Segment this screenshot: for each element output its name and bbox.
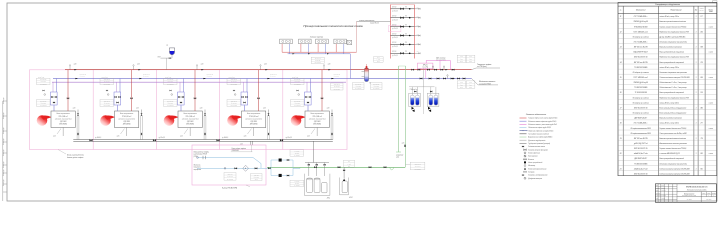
legend row 7: [520, 136, 527, 138]
gas collector label stack: [311, 57, 324, 63]
svg-text:ру 1,6МПа: ру 1,6МПа: [372, 88, 379, 90]
svg-text:Козлов: Козлов: [661, 198, 665, 200]
burner gas risers B1: [281, 44, 283, 52]
svg-text:Инв.подл: Инв.подл: [3, 169, 5, 176]
svg-text:ПТБ1,6М-02.00.000: ПТБ1,6М-02.00.000: [634, 26, 648, 28]
svg-text:технологическая схема: технологическая схема: [682, 195, 696, 197]
burner gas risers B2: [300, 44, 302, 52]
svg-text:16: 16: [620, 92, 622, 94]
burner block B2: [299, 39, 312, 44]
metering valves: [235, 168, 237, 170]
svg-text:ЗКЛ: ЗКЛ: [460, 56, 463, 58]
table row 25: [618, 139, 717, 141]
svg-text:Вентиль: Вентиль: [528, 159, 534, 161]
legend row 12: [524, 152, 526, 154]
outlet pipe U4: [267, 116, 269, 140]
svg-text:277: 277: [699, 123, 702, 125]
svg-text:ЗКЛ2 50-16: ЗКЛ2 50-16: [270, 74, 277, 76]
table row 10: [618, 63, 717, 65]
title block left grid: [657, 184, 659, 203]
svg-text:210: 210: [699, 62, 702, 64]
tank E-1 drain valves: [412, 107, 415, 110]
svg-text:729: 729: [700, 138, 703, 140]
legend row 6: [520, 133, 527, 135]
svg-text:103: 103: [700, 92, 702, 94]
collector tee to metering unit: [250, 141, 252, 145]
separator side stubs: [362, 71, 365, 73]
svg-text:699: 699: [700, 77, 702, 79]
table row 30: [618, 165, 717, 167]
svg-text:Т.контр.: Т.контр.: [656, 193, 661, 195]
svg-text:Обозначение: Обозначение: [636, 9, 646, 11]
legend row 9: [520, 142, 527, 144]
svg-text:Инв.подл: Инв.подл: [3, 138, 5, 145]
table row 4: [618, 33, 717, 35]
svg-text:ТПР-50: ТПР-50: [254, 174, 259, 176]
legend row 10: [522, 146, 524, 147]
table row 21: [618, 119, 717, 121]
green drain line vertical 2: [405, 66, 407, 167]
vent stub U1: [69, 66, 71, 70]
table row 17: [618, 99, 717, 101]
legend row 1: [520, 117, 527, 119]
outlet pipe U5: [330, 116, 332, 140]
svg-text:Инв.подл: Инв.подл: [3, 161, 5, 168]
flare manifold pink box: [388, 26, 401, 32]
red riser U3: [194, 70, 196, 111]
title block frame: [655, 184, 716, 203]
table row 22: [618, 124, 717, 126]
flare manifold frame: [390, 5, 392, 59]
svg-text:ДВУ 65307-33-017: ДВУ 65307-33-017: [633, 158, 647, 160]
flare branch 1: [414, 8, 418, 10]
svg-text:на приём УПСВ: на приём УПСВ: [479, 84, 492, 86]
collector valve V4: [280, 139, 283, 141]
svg-text:Манометр: Манометр: [528, 165, 535, 167]
svg-text:ПТБ-1,6М №2: ПТБ-1,6М №2: [122, 116, 131, 118]
burner block B1: [280, 39, 293, 44]
svg-text:ур23-6,3-Д-УХЛ1 сб: ур23-6,3-Д-УХЛ1 сб: [633, 143, 648, 145]
svg-text:РУ 1,6МПа: РУ 1,6МПа: [167, 105, 174, 107]
table row 15: [618, 88, 717, 90]
svg-text:38-110: 38-110: [295, 183, 299, 185]
svg-text:ЗКЛ2 50-16 ХЛ1 СБ: ЗКЛ2 50-16 ХЛ1 СБ: [634, 57, 648, 59]
svg-text:-ЕП-2: -ЕП-2: [349, 197, 353, 199]
svg-text:Газовые горелки: Газовые горелки: [310, 36, 323, 38]
table row 32: [618, 175, 717, 177]
funnel drain piping: [171, 55, 173, 58]
flare branch 6: [414, 52, 418, 54]
drain tank box E-2: [427, 93, 439, 106]
table row 2: [618, 22, 717, 24]
svg-text:ПТБ-1,6М №3: ПТБ-1,6М №3: [186, 116, 195, 118]
pump labels: [290, 150, 304, 156]
svg-text:ЗКЛ 50-16: ЗКЛ 50-16: [40, 79, 46, 81]
svg-text:УДР-1600: УДР-1600: [250, 121, 257, 123]
svg-text:РУ 1,6МПа: РУ 1,6МПа: [167, 83, 174, 85]
svg-text:УДР-1600: УДР-1600: [187, 121, 194, 123]
heater box U3: [178, 111, 202, 128]
separator label box: [374, 57, 384, 63]
tank group 2 label stack: [344, 160, 355, 167]
svg-text:ру 1,6МПа: ру 1,6МПа: [333, 89, 340, 91]
svg-text:с установки УПСВ: с установки УПСВ: [194, 154, 207, 156]
svg-text:ЗКЛ 50: ЗКЛ 50: [392, 51, 397, 53]
flare manifold row 3: [391, 26, 415, 28]
drain line U1: [62, 128, 64, 137]
svg-text:Горелка газовая блочная тип ГГ: Горелка газовая блочная тип ГГМ-5,6: [660, 128, 687, 130]
blue oil manifold line: [53, 78, 472, 80]
dosing line to blue main: [425, 69, 427, 79]
svg-text:ЗКЛ: ЗКЛ: [460, 82, 463, 84]
legend row 3: [520, 123, 527, 125]
storage tank EP-1 vessel 1: [307, 179, 313, 193]
flame symbol U2: [100, 115, 111, 125]
svg-text:Петров: Петров: [661, 190, 666, 192]
green bottom line: [267, 166, 405, 168]
svg-text:ЗКЛ2 50-16: ЗКЛ2 50-16: [207, 74, 214, 76]
flare manifold row 4: [391, 35, 415, 37]
burner gas risers B4: [335, 44, 337, 52]
drain tank box E-1: [409, 93, 421, 106]
outlet pipe U2: [140, 116, 142, 140]
svg-text:ТУ 26-02-2032-86: ТУ 26-02-2032-86: [635, 92, 647, 94]
svg-text:БР-2,5: БР-2,5: [423, 65, 428, 67]
blue riser and bypass loop U1: [56, 79, 58, 93]
legend row 5: [520, 130, 527, 132]
svg-text:ГС-1: ГС-1: [377, 57, 380, 59]
oil outlet collector double pipe: [73, 139, 333, 141]
svg-text:ВКГ 100 лев 36-17Б: ВКГ 100 лев 36-17Б: [634, 62, 648, 64]
heater box U4: [242, 111, 266, 128]
gauge glyphs U1: [43, 90, 45, 91]
legend row 16: [524, 165, 526, 167]
svg-text:Кол: Кол: [695, 9, 697, 11]
legend row 2: [520, 120, 527, 122]
outlet valves U3: [204, 113, 206, 115]
svg-text:Блок нагревателя: Блок нагревателя: [311, 113, 324, 115]
svg-text:ПК: ПК: [405, 16, 407, 18]
heater box U2: [115, 111, 139, 128]
gauge glyphs U4: [233, 90, 235, 91]
specification table: [618, 3, 717, 176]
red riser U4: [258, 70, 260, 111]
label stack left-low U3: [164, 100, 178, 107]
svg-text:ЗКЛ 50: ЗКЛ 50: [392, 16, 397, 18]
svg-text:УДР-1600: УДР-1600: [60, 121, 67, 123]
svg-text:ТУ 3667-007-09565: ТУ 3667-007-09565: [634, 67, 647, 69]
table row 19: [618, 109, 717, 111]
svg-text:ру6: ру6: [347, 166, 350, 168]
svg-text:к свече: к свече: [709, 128, 714, 130]
table row 18: [618, 104, 717, 106]
table row 5: [618, 38, 717, 40]
svg-text:ру 1,6МПа: ру 1,6МПа: [414, 168, 421, 170]
green end label stack: [410, 162, 425, 169]
svg-text:ЗКЛ 50-16: ЗКЛ 50-16: [104, 100, 110, 102]
outlet pipe valve U5: [331, 133, 332, 135]
svg-text:труба 89х3,5: труба 89х3,5: [370, 23, 379, 25]
dosing lines magenta: [426, 61, 450, 70]
svg-text:к свече: к свече: [709, 52, 714, 54]
valve chain red manifold: [412, 69, 414, 71]
svg-text:Принципиальная: Принципиальная: [684, 193, 695, 195]
tank group manifold: [305, 162, 329, 164]
flare manifold row 5: [391, 43, 415, 45]
table row 6: [618, 43, 717, 45]
metering lower line: [197, 167, 266, 169]
svg-text:РУ 1,6МПа: РУ 1,6МПа: [40, 83, 47, 85]
metering label stacks: [224, 173, 236, 181]
svg-text:661: 661: [700, 168, 702, 170]
svg-text:ЗКЛ 50-16: ЗКЛ 50-16: [294, 100, 300, 102]
legend row 17: [524, 168, 526, 170]
gas riser blue down: [349, 54, 351, 79]
svg-text:21: 21: [619, 168, 622, 170]
red oil manifold line: [65, 69, 472, 71]
svg-text:Товарная нефть: Товарная нефть: [477, 63, 491, 66]
svg-text:товарная с: товарная с: [194, 167, 202, 169]
svg-text:ру16: ру16: [459, 87, 463, 89]
vent stub U5: [323, 66, 325, 70]
svg-text:858: 858: [700, 47, 702, 49]
flare manifold row 6: [391, 52, 415, 54]
table row 27: [618, 149, 717, 151]
burner block B3: [316, 39, 329, 44]
sheet corner mark: [713, 1, 717, 3]
fence label leader: [58, 150, 66, 155]
svg-text:Лист: Лист: [660, 185, 664, 187]
svg-text:-ЕП-1: -ЕП-1: [327, 198, 331, 200]
drain line U2: [126, 128, 128, 137]
blue riser and bypass loop U2: [119, 79, 121, 93]
legend row 20: [524, 177, 526, 179]
flame symbol U3: [164, 115, 175, 125]
funnel drop to main: [166, 58, 168, 70]
svg-text:гр. 2Б2Б: гр. 2Б2Б: [686, 199, 691, 201]
svg-text:13: 13: [620, 47, 622, 49]
label stack left-low U2: [100, 100, 114, 107]
svg-text:ру 1,6МПа: ру 1,6МПа: [354, 88, 361, 90]
svg-text:ЗКЛ2 50-16: ЗКЛ2 50-16: [143, 74, 150, 76]
burner block B4: [334, 39, 347, 44]
svg-text:РУ 1,6МПа: РУ 1,6МПа: [104, 105, 111, 107]
svg-text:РУ 1,6МПа: РУ 1,6МПа: [104, 83, 111, 85]
svg-text:ру 1,6МПа: ру 1,6МПа: [314, 62, 321, 64]
svg-text:ПГ 57х3,5: ПГ 57х3,5: [315, 58, 321, 60]
svg-text:РУ 1,6МПа: РУ 1,6МПа: [294, 105, 301, 107]
tank group 2 drop: [343, 167, 345, 178]
collector drop to tanks: [313, 141, 315, 162]
vent stub U4: [260, 66, 262, 70]
svg-text:к свече: к свече: [709, 77, 714, 79]
green line valves: [314, 166, 316, 168]
svg-text:ПУ: ПУ: [166, 45, 168, 47]
svg-text:ПК: ПК: [405, 24, 407, 26]
flare manifold row 2: [391, 17, 415, 19]
svg-text:РУ 1,6МПа: РУ 1,6МПа: [231, 105, 238, 107]
svg-text:Горелка газовая блочная тип ГГ: Горелка газовая блочная тип ГГМ-5,6: [660, 148, 687, 150]
svg-text:К узлу УПСВ (УПН): К узлу УПСВ (УПН): [222, 187, 237, 189]
svg-text:Иванов: Иванов: [661, 187, 665, 189]
svg-text:ЗКЛ2 50-16 ХЛ1 СБ: ЗКЛ2 50-16 ХЛ1 СБ: [634, 173, 648, 175]
svg-text:ЗКЛ2 50-16 ХЛ1 СБ: ЗКЛ2 50-16 ХЛ1 СБ: [634, 107, 648, 109]
legend row 15: [524, 161, 526, 163]
svg-text:Заглушка: Заглушка: [528, 171, 534, 173]
outlet pipe valve U4: [268, 133, 269, 135]
svg-text:Инв.подл: Инв.подл: [3, 97, 5, 104]
svg-text:ру 1,6МПа: ру 1,6МПа: [226, 179, 233, 181]
svg-text:Блок нагревателя: Блок нагревателя: [57, 113, 70, 115]
svg-text:ру16: ру16: [376, 61, 380, 63]
svg-text:Н-2 ЦНС: Н-2 ЦНС: [294, 181, 299, 183]
svg-text:117: 117: [701, 16, 703, 18]
svg-text:ВКГ 100 лев 36-17Б: ВКГ 100 лев 36-17Б: [634, 47, 648, 49]
svg-text:Блок нагревателя: Блок нагревателя: [120, 113, 133, 115]
svg-text:ТПУ ИПР: ТПУ ИПР: [706, 199, 711, 201]
svg-text:ЗКЛ2 50: ЗКЛ2 50: [315, 60, 320, 62]
flame symbol U5: [291, 115, 302, 125]
legend row 4: [520, 127, 527, 129]
table row 1: [618, 17, 717, 19]
legend row 19: [522, 174, 524, 175]
legend row 13: [524, 155, 526, 157]
svg-text:ЗКЛ 50-16: ЗКЛ 50-16: [373, 83, 379, 85]
svg-text:Принципиальная технологическая: Принципиальная технологическая схема: [303, 24, 363, 28]
svg-text:Блок нагревателя: Блок нагревателя: [247, 113, 260, 115]
tank inlet valve 2: [316, 163, 318, 177]
purple auxiliary line: [52, 81, 346, 83]
svg-text:ЗКЛ 50-16: ЗКЛ 50-16: [355, 83, 361, 85]
svg-text:к свече: к свече: [709, 153, 714, 155]
blue riser and bypass loop U4: [246, 79, 248, 93]
svg-text:Е-9: Е-9: [348, 161, 350, 163]
svg-text:ТУ 3667-007-09565: ТУ 3667-007-09565: [634, 163, 647, 165]
table row 14: [618, 83, 717, 85]
legend row 8: [520, 139, 527, 141]
label stacks at line ends: [457, 55, 466, 62]
svg-text:к свече: к свече: [709, 102, 714, 104]
title block middle cells: [677, 196, 716, 198]
burner gas risers B3: [317, 44, 319, 52]
svg-text:11: 11: [620, 16, 622, 18]
svg-text:ПТБ-1,6М №1: ПТБ-1,6М №1: [59, 116, 68, 118]
table row 11: [618, 68, 717, 70]
svg-text:Лист: Лист: [707, 193, 711, 195]
svg-text:ВКГ 100 лев 36-17Б: ВКГ 100 лев 36-17Б: [634, 138, 648, 140]
svg-text:ФЮРА 2016.08.03.000 СХ: ФЮРА 2016.08.03.000 СХ: [686, 185, 708, 188]
vent stub U2: [133, 66, 135, 70]
svg-text:ЗКЛ: ЗКЛ: [469, 56, 472, 58]
flare line: [357, 21, 391, 23]
collector valve V1: [90, 139, 93, 141]
svg-text:N=15кВт: N=15кВт: [294, 155, 300, 157]
svg-text:к свече: к свече: [709, 26, 714, 28]
outlet pipe valve U3: [204, 133, 205, 135]
svg-text:РУ 1,6МПа: РУ 1,6МПа: [231, 83, 238, 85]
svg-text:к свече рассеивания: к свече рассеивания: [359, 20, 374, 22]
svg-text:ЗКЛ 50: ЗКЛ 50: [392, 24, 397, 26]
flow diamond: [243, 165, 249, 171]
svg-text:ЗКЛ 50-16: ЗКЛ 50-16: [294, 79, 300, 81]
svg-text:ПК: ПК: [405, 33, 407, 35]
svg-text:ЗКЛ 50: ЗКЛ 50: [392, 33, 397, 35]
table row 20: [618, 114, 717, 116]
svg-text:ЗКЛ 50-16: ЗКЛ 50-16: [231, 79, 237, 81]
svg-text:38-110: 38-110: [295, 153, 299, 155]
outlet valves U1: [77, 113, 79, 115]
svg-text:18: 18: [620, 123, 622, 125]
svg-text:Изм: Изм: [656, 185, 658, 187]
drain line U3: [189, 128, 191, 137]
table row 13: [618, 78, 717, 80]
table row 31: [618, 170, 717, 172]
outlet pipe U1: [76, 116, 78, 140]
svg-text:УДР-1600: УДР-1600: [314, 121, 321, 123]
table row 3: [618, 28, 717, 30]
svg-text:ЗКЛ 50-16: ЗКЛ 50-16: [231, 100, 237, 102]
storage tank EP-1 vessel 3 (short): [322, 183, 327, 193]
table row 8: [618, 53, 717, 55]
svg-text:насос НД: насос НД: [422, 67, 428, 69]
pink boundary fence around heater block: [30, 70, 348, 150]
label stack left-low U4: [227, 100, 241, 107]
svg-text:ру16: ру16: [468, 87, 472, 89]
svg-text:слив: слив: [396, 157, 400, 159]
legend row 18: [523, 171, 525, 173]
table row 9: [618, 58, 717, 60]
table row 28: [618, 154, 717, 156]
table row 24: [618, 134, 717, 136]
flare branch 2: [414, 17, 418, 19]
flare branch 5: [414, 43, 418, 45]
svg-text:ЗКЛ2 50-16 ХЛ1 СБ: ЗКЛ2 50-16 ХЛ1 СБ: [634, 148, 648, 150]
collector valve V3: [217, 139, 220, 141]
svg-text:Спецификация оборудования: Спецификация оборудования: [655, 3, 680, 6]
svg-text:УДР-1600: УДР-1600: [123, 121, 130, 123]
svg-text:Листов: Листов: [711, 193, 716, 195]
label stack left-low U1: [37, 100, 51, 107]
gas collector blue: [288, 53, 351, 55]
tank E-2 drain valves: [428, 107, 431, 110]
svg-text:ЗКЛ2 50-16: ЗКЛ2 50-16: [80, 74, 87, 76]
svg-text:Наименование: Наименование: [671, 9, 682, 11]
outlet pipe valve U2: [141, 133, 142, 135]
svg-text:ЗКЛ: ЗКЛ: [469, 82, 472, 84]
storage tank EP-2: [342, 181, 347, 193]
svg-text:Условные обозначения: Условные обозначения: [526, 114, 546, 116]
red riser U1: [67, 70, 69, 111]
svg-text:N=15кВт: N=15кВт: [294, 185, 300, 187]
gauge glyphs U3: [170, 90, 172, 91]
flame arrestor: [347, 40, 352, 44]
flare branch 4: [414, 35, 418, 37]
svg-text:19: 19: [620, 138, 622, 140]
tank inlet valve 1: [308, 163, 310, 177]
svg-text:Инв.подл: Инв.подл: [3, 112, 5, 119]
svg-text:ЗКЛ 50: ЗКЛ 50: [392, 7, 397, 9]
svg-text:Приме-: Приме-: [709, 9, 714, 11]
pump N-1: [279, 159, 282, 162]
svg-text:ру16: ру16: [468, 61, 472, 63]
svg-text:Инв.подл: Инв.подл: [3, 149, 5, 156]
title block doc number: [677, 191, 716, 193]
svg-text:Инв.подл: Инв.подл: [3, 179, 5, 186]
svg-text:12: 12: [620, 31, 622, 33]
svg-text:ЗКЛ2 50-16: ЗКЛ2 50-16: [334, 74, 341, 76]
metering upper line: [197, 158, 261, 169]
svg-text:ЗКЛ 50: ЗКЛ 50: [392, 42, 397, 44]
